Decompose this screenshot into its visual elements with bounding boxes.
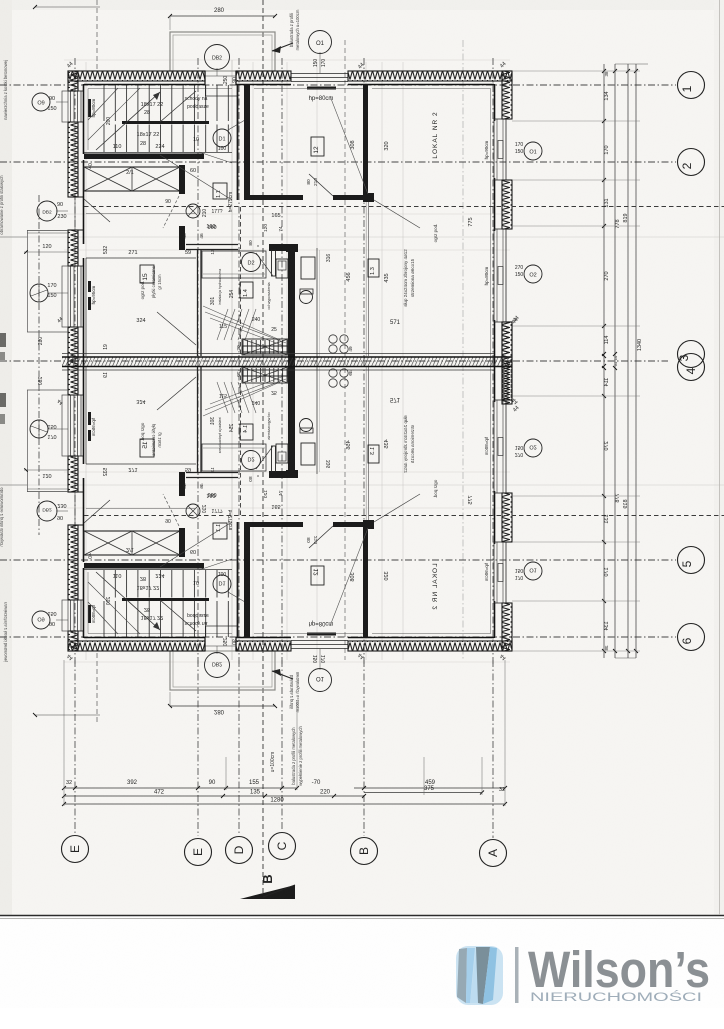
svg-text:NIERUCHOMOŚCI: NIERUCHOMOŚCI (530, 991, 702, 1004)
svg-text:Wilson’s: Wilson’s (528, 941, 710, 998)
